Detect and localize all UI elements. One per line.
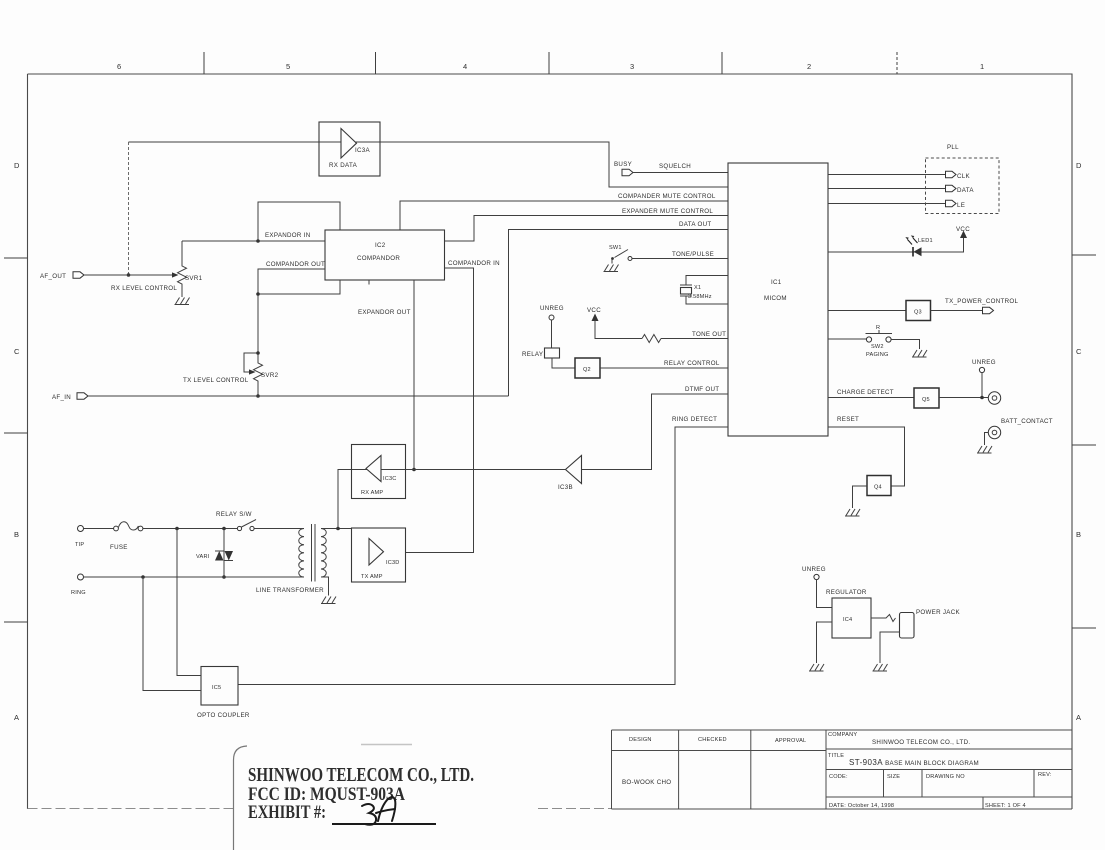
left edge tick 2 xyxy=(4,432,28,434)
switch RELAY S/W xyxy=(237,520,256,531)
svg-text:VARI: VARI xyxy=(196,554,210,560)
connector POWER JACK xyxy=(900,613,915,639)
power UNREG (charge) xyxy=(972,359,996,398)
power VCC (tone out pullup) xyxy=(587,307,642,339)
ground BATT_CONTACT xyxy=(977,446,992,453)
pin BUSY connector xyxy=(622,169,633,176)
transistor Q4 xyxy=(867,476,891,496)
wire crystal top xyxy=(686,276,728,286)
svg-text:IC3C: IC3C xyxy=(383,476,397,482)
wire relay to Q2 xyxy=(552,358,575,368)
node junction RX-data / AF_OUT xyxy=(127,273,131,277)
svg-text:RELAY: RELAY xyxy=(522,351,543,358)
ground under SW1 xyxy=(604,265,619,272)
wire SW2 to ground xyxy=(891,340,919,350)
wire LED to VCC xyxy=(828,238,964,252)
svg-text:3.58MHz: 3.58MHz xyxy=(688,294,712,300)
op-amp U IC3A box xyxy=(319,122,380,176)
svg-text:A: A xyxy=(1076,713,1081,722)
svg-text:DATE: October 14, 1998: DATE: October 14, 1998 xyxy=(829,803,894,809)
wire rx amp input line xyxy=(352,469,406,471)
zone tick top 2 xyxy=(375,52,377,74)
switch SW1 xyxy=(611,250,632,264)
node battery charge terminal xyxy=(988,392,1000,404)
diode LED1 xyxy=(905,235,921,256)
wire EXPANDER MUTE CONTROL xyxy=(445,216,729,242)
svg-text:UNREG: UNREG xyxy=(802,566,826,573)
svg-text:SHEET: 1 OF 4: SHEET: 1 OF 4 xyxy=(985,803,1026,809)
wire AF_OUT to SVR1 wiper xyxy=(84,274,174,276)
svg-text:EXPANDOR OUT: EXPANDOR OUT xyxy=(358,309,411,316)
svg-text:B: B xyxy=(14,530,19,539)
IC4 regulator box xyxy=(832,598,871,638)
svg-text:B: B xyxy=(1076,530,1081,539)
wire COMPANDER MUTE CONTROL xyxy=(400,201,728,230)
wire DATA xyxy=(828,188,946,190)
stamp top edge faint xyxy=(361,744,412,746)
left edge tick 3 xyxy=(4,621,28,623)
svg-text:IC5: IC5 xyxy=(212,685,221,691)
svg-text:X1: X1 xyxy=(694,285,701,291)
IC1 MICOM box xyxy=(728,163,828,436)
wire loop EXPANDOR IN to COMPANDOR top pin xyxy=(258,202,340,241)
svg-text:IC3A: IC3A xyxy=(355,147,371,154)
op-amp IC3B triangle xyxy=(566,456,582,484)
svg-text:TONE/PULSE: TONE/PULSE xyxy=(672,251,714,258)
wire BATT_CONTACT to ground xyxy=(985,433,989,446)
wire DATA OUT (to AF_IN line) xyxy=(509,230,729,397)
wire RX DATA (IC3A output left / input to MICOM) xyxy=(129,142,729,187)
node junction EXPANDOR OUT / rx line xyxy=(412,468,416,472)
svg-text:1: 1 xyxy=(980,62,984,71)
svg-text:IC3B: IC3B xyxy=(558,484,573,491)
relay coil box xyxy=(545,348,560,358)
svg-text:TX_POWER_CONTROL: TX_POWER_CONTROL xyxy=(945,298,1018,305)
svg-text:Q5: Q5 xyxy=(922,397,930,403)
svg-text:SHINWOO TELECOM CO., LTD.: SHINWOO TELECOM CO., LTD. xyxy=(872,739,970,746)
op-amp IC3A triangle xyxy=(341,129,357,159)
wire IC3B output to rx amp line xyxy=(406,469,566,471)
wire AF_IN xyxy=(88,395,509,397)
wire TIP to fuse xyxy=(84,528,114,530)
svg-text:RELAY S/W: RELAY S/W xyxy=(216,511,252,518)
svg-text:ST-903A BASE MAIN BLOCK DIAGRA: ST-903A BASE MAIN BLOCK DIAGRAM xyxy=(849,758,979,767)
node junction bottom pin loop xyxy=(256,292,260,296)
svg-text:IC4: IC4 xyxy=(843,617,852,623)
svg-text:MICOM: MICOM xyxy=(764,295,787,302)
wire TONE OUT xyxy=(661,338,728,340)
wire crystal bottom xyxy=(686,296,728,304)
svg-text:BUSY: BUSY xyxy=(614,161,632,168)
svg-text:AF_IN: AF_IN xyxy=(52,394,71,401)
wire TX_POWER_CONTROL xyxy=(931,310,983,312)
svg-text:SVR2: SVR2 xyxy=(261,372,279,379)
ground under SVR1 xyxy=(175,298,190,305)
fuse F1 xyxy=(114,522,143,531)
svg-text:Q3: Q3 xyxy=(914,310,922,316)
pin DATA xyxy=(946,185,957,191)
node junction ring/varistor xyxy=(222,575,226,579)
power UNREG (relay) xyxy=(540,305,564,348)
wire COMPANDOR bottom pin loop xyxy=(258,280,340,294)
node junction tip/IC5 xyxy=(175,527,179,531)
resistor SVR2 xyxy=(254,353,263,396)
zone tick top 4 xyxy=(721,52,723,74)
IC2 COMPANDOR box xyxy=(325,230,445,280)
svg-text:DATA OUT: DATA OUT xyxy=(679,221,711,228)
arrow SVR1 wiper xyxy=(172,272,179,277)
svg-text:A: A xyxy=(14,713,19,722)
svg-text:UNREG: UNREG xyxy=(972,359,996,366)
svg-text:SIZE: SIZE xyxy=(887,774,900,780)
node RING terminal xyxy=(78,574,84,580)
PLL dashed block xyxy=(926,158,1000,214)
transistor Q2 xyxy=(575,358,600,378)
svg-text:COMPANY: COMPANY xyxy=(828,732,857,738)
svg-text:APPROVAL: APPROVAL xyxy=(775,738,806,744)
wire CLK xyxy=(828,174,946,176)
svg-text:D: D xyxy=(1076,161,1082,170)
svg-text:PAGING: PAGING xyxy=(866,352,889,358)
svg-text:TX LEVEL CONTROL: TX LEVEL CONTROL xyxy=(183,377,249,384)
svg-text:DESIGN: DESIGN xyxy=(629,737,652,743)
node junction EXPANDOR IN loop xyxy=(256,239,260,243)
svg-text:SQUELCH: SQUELCH xyxy=(659,163,691,170)
wire jack return to ground xyxy=(880,632,900,663)
svg-text:DRAWING NO: DRAWING NO xyxy=(926,774,965,780)
wire secondary bottom to ground xyxy=(321,577,329,596)
wire EXPANDOR IN xyxy=(182,240,325,242)
svg-text:IC2: IC2 xyxy=(375,242,386,249)
svg-text:RELAY CONTROL: RELAY CONTROL xyxy=(664,360,720,367)
node junction tip/varistor xyxy=(222,527,226,531)
node junction SVR2 / AF_IN xyxy=(256,394,260,398)
wire DTMF OUT (to IC3B input) xyxy=(582,394,729,470)
wire RELAY CONTROL xyxy=(600,367,728,369)
svg-text:COMPANDER MUTE CONTROL: COMPANDER MUTE CONTROL xyxy=(618,193,716,200)
wire LE xyxy=(828,203,946,205)
varistor VARI xyxy=(215,529,233,578)
svg-text:3: 3 xyxy=(630,62,634,71)
zone tick top 1 xyxy=(203,52,205,74)
wire SW2 xyxy=(828,338,866,340)
node junction SVR2 top xyxy=(256,351,260,355)
svg-text:COMPANDOR OUT: COMPANDOR OUT xyxy=(266,261,325,268)
node TIP terminal xyxy=(78,526,84,532)
pin AF_IN connector xyxy=(77,393,88,399)
wire SVR2 bypass loop xyxy=(244,353,258,372)
svg-text:Q2: Q2 xyxy=(583,367,591,373)
svg-text:OPTO COUPLER: OPTO COUPLER xyxy=(197,712,250,719)
ground regulator xyxy=(809,664,824,671)
svg-text:Q4: Q4 xyxy=(874,485,882,491)
svg-text:2: 2 xyxy=(807,62,811,71)
svg-text:IC3D: IC3D xyxy=(386,560,400,566)
svg-text:SW2: SW2 xyxy=(871,344,884,350)
svg-text:TONE OUT: TONE OUT xyxy=(692,331,726,338)
pin AF_OUT connector xyxy=(73,272,84,278)
svg-text:6: 6 xyxy=(117,62,121,71)
wire RESET xyxy=(828,427,905,486)
svg-text:TX AMP: TX AMP xyxy=(361,574,383,580)
crystal X1 xyxy=(680,285,692,296)
zone tick top 3 xyxy=(548,52,550,74)
ground Q4 xyxy=(845,509,860,516)
svg-text:REGULATOR: REGULATOR xyxy=(826,589,867,596)
svg-text:DTMF OUT: DTMF OUT xyxy=(685,386,719,393)
svg-text:PLL: PLL xyxy=(947,144,959,151)
op-amp IC3D box (TX AMP) xyxy=(352,528,406,582)
svg-text:CODE:: CODE: xyxy=(829,774,848,780)
node junction charge/unreg xyxy=(980,396,984,400)
wire IC4 ground pin xyxy=(817,622,833,663)
wire Q4 to ground xyxy=(853,486,868,508)
wire IC5 lower input from ring line xyxy=(143,577,201,691)
wire TONE/PULSE xyxy=(632,258,728,260)
svg-text:SVR1: SVR1 xyxy=(185,275,203,282)
svg-text:AF_OUT: AF_OUT xyxy=(40,273,66,280)
svg-text:VCC: VCC xyxy=(587,307,601,314)
svg-text:D: D xyxy=(14,161,20,170)
svg-text:LED1: LED1 xyxy=(918,238,933,244)
wire IC5 upper input from tip line xyxy=(177,529,201,676)
wire COMPANDOR OUT xyxy=(258,269,325,353)
svg-text:CHECKED: CHECKED xyxy=(698,737,727,743)
pin TX_POWER_CONTROL xyxy=(983,307,994,313)
stamp left edge line xyxy=(234,746,248,850)
svg-text:4: 4 xyxy=(463,62,467,71)
op-amp IC3D triangle xyxy=(369,539,384,566)
svg-text:C: C xyxy=(1076,347,1082,356)
svg-text:BATT_CONTACT: BATT_CONTACT xyxy=(1001,418,1053,425)
svg-text:LINE TRANSFORMER: LINE TRANSFORMER xyxy=(256,587,324,594)
wire rx amp output drop xyxy=(338,470,352,529)
op-amp IC3C box (RX AMP) xyxy=(352,445,406,499)
zone tick top 5 xyxy=(896,52,898,74)
svg-text:LE: LE xyxy=(957,202,965,209)
ground power jack xyxy=(873,664,888,671)
svg-text:CLK: CLK xyxy=(957,173,971,180)
svg-text:DATA: DATA xyxy=(957,187,974,194)
svg-text:TIP: TIP xyxy=(75,542,84,548)
transistor Q3 xyxy=(906,301,931,321)
wire EXPANDOR OUT xyxy=(413,280,415,470)
node BATT_CONTACT terminal xyxy=(988,426,1000,438)
svg-text:POWER JACK: POWER JACK xyxy=(916,609,960,616)
stamp underline xyxy=(332,823,436,825)
svg-text:EXPANDER MUTE CONTROL: EXPANDER MUTE CONTROL xyxy=(622,208,713,215)
node junction secondary/rx-amp xyxy=(336,527,340,531)
power VCC (led) xyxy=(956,226,970,238)
svg-text:RX LEVEL CONTROL: RX LEVEL CONTROL xyxy=(111,285,177,292)
svg-text:5: 5 xyxy=(286,62,290,71)
svg-text:RX AMP: RX AMP xyxy=(361,490,383,496)
transformer T1 secondary coil xyxy=(321,529,326,577)
power UNREG (regulator input) xyxy=(802,566,832,608)
right edge tick 3 xyxy=(1072,627,1096,629)
transformer T1 primary coil xyxy=(299,529,304,577)
svg-text:COMPANDOR: COMPANDOR xyxy=(357,255,400,262)
pin LE xyxy=(946,200,957,206)
ground transformer xyxy=(321,597,336,604)
wire RING to transformer xyxy=(84,576,305,578)
svg-text:RESET: RESET xyxy=(837,416,859,423)
wire IC4 output to jack xyxy=(871,615,896,622)
svg-text:IC1: IC1 xyxy=(771,279,782,286)
resistor tone out xyxy=(642,335,661,343)
svg-text:UNREG: UNREG xyxy=(540,305,564,312)
transformer T1 core xyxy=(312,524,316,582)
wire relay switch to transformer xyxy=(254,528,304,530)
svg-text:CHARGE DETECT: CHARGE DETECT xyxy=(837,389,894,396)
op-amp IC3C triangle xyxy=(366,456,381,482)
svg-text:RING: RING xyxy=(71,590,86,596)
pin CLK xyxy=(946,171,957,177)
resistor SVR1 xyxy=(178,241,187,297)
wire COMPANDOR bottom stub xyxy=(368,280,370,285)
IC5 opto coupler box xyxy=(201,667,238,706)
arrow SVR2 wiper xyxy=(249,369,256,374)
wire SQUELCH xyxy=(633,172,728,174)
left edge tick 1 xyxy=(4,257,28,259)
svg-text:EXHIBIT #:: EXHIBIT #: xyxy=(248,802,326,823)
node junction ring/IC5 xyxy=(141,575,145,579)
transistor Q5 xyxy=(914,388,939,408)
wire CHARGE DETECT xyxy=(828,397,914,399)
svg-text:SW1: SW1 xyxy=(609,245,622,251)
svg-text:RX DATA: RX DATA xyxy=(329,162,358,169)
title block xyxy=(612,730,1073,809)
wire COMPANDOR IN (to TX AMP output) xyxy=(406,268,474,553)
svg-text:FUSE: FUSE xyxy=(110,544,128,551)
right edge tick 2 xyxy=(1072,444,1096,446)
svg-text:COMPANDOR IN: COMPANDOR IN xyxy=(448,260,500,267)
wire Q3 base xyxy=(828,310,906,312)
right edge tick 1 xyxy=(1072,254,1096,256)
stamp white area xyxy=(234,742,537,850)
wire secondary top to amps xyxy=(321,528,352,530)
wire Q5 to battery contact xyxy=(939,397,988,399)
svg-text:RING DETECT: RING DETECT xyxy=(672,416,717,423)
svg-text:EXPANDOR IN: EXPANDOR IN xyxy=(265,232,310,239)
frame bottom edge (dashed, interrupted by stamp) xyxy=(28,808,613,810)
svg-text:BO-WOOK CHO: BO-WOOK CHO xyxy=(622,779,671,786)
svg-text:TITLE: TITLE xyxy=(828,753,844,759)
svg-text:SHINWOO TELECOM CO., LTD.: SHINWOO TELECOM CO., LTD. xyxy=(248,764,474,786)
ground SW2 xyxy=(912,350,927,357)
svg-text:REV:: REV: xyxy=(1038,772,1052,778)
svg-text:C: C xyxy=(14,347,20,356)
wire dashed drop from RX DATA to AF_OUT line xyxy=(128,142,130,275)
switch SW2 pushbutton xyxy=(866,330,893,342)
wire RING DETECT (from opto coupler) xyxy=(238,427,728,685)
svg-text:R: R xyxy=(876,325,880,331)
wire tip line to relay switch xyxy=(143,528,237,530)
handwritten exhibit number 3A xyxy=(362,797,395,825)
